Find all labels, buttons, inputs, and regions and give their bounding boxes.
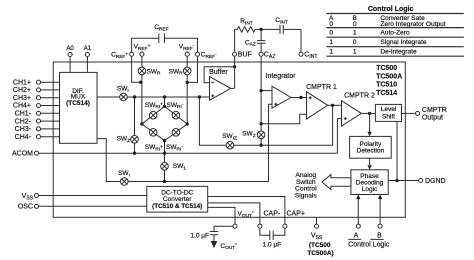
svg-text:SW1: SW1 xyxy=(173,163,186,171)
svg-text:Detection: Detection xyxy=(357,148,385,155)
svg-text:TC510: TC510 xyxy=(376,82,397,89)
svg-text:A1: A1 xyxy=(84,46,92,52)
svg-text:CH4-: CH4- xyxy=(15,134,32,141)
svg-text:A0: A0 xyxy=(66,46,74,52)
svg-text:Auto-Zero: Auto-Zero xyxy=(380,29,410,36)
svg-text:B: B xyxy=(377,233,382,240)
svg-text:TC514: TC514 xyxy=(376,90,397,97)
svg-text:(TC500: (TC500 xyxy=(309,242,331,249)
svg-text:SWZ: SWZ xyxy=(117,136,130,144)
svg-text:CREF: CREF xyxy=(154,24,168,32)
svg-text:0: 0 xyxy=(353,21,357,28)
svg-text:Control Logic: Control Logic xyxy=(368,6,414,13)
svg-text:CH1-: CH1- xyxy=(15,111,32,118)
svg-text:0: 0 xyxy=(353,39,357,46)
svg-text:Buffer: Buffer xyxy=(209,69,228,76)
svg-text:SWI: SWI xyxy=(118,170,130,178)
svg-text:SWRI+: SWRI+ xyxy=(145,144,163,152)
svg-text:1: 1 xyxy=(329,48,333,55)
svg-text:VSS: VSS xyxy=(311,233,323,241)
svg-text:VREF+: VREF+ xyxy=(134,44,151,52)
svg-text:RINT: RINT xyxy=(240,18,253,26)
svg-text:CAZ: CAZ xyxy=(245,39,256,47)
svg-text:Control Logic: Control Logic xyxy=(348,241,390,248)
svg-text:BUF: BUF xyxy=(238,52,252,59)
svg-text:1: 1 xyxy=(329,39,333,46)
svg-text:A: A xyxy=(354,233,359,240)
svg-text:CMPTR 1: CMPTR 1 xyxy=(306,84,337,91)
svg-text:CH2-: CH2- xyxy=(15,118,32,125)
svg-text:CAZ: CAZ xyxy=(264,52,275,60)
svg-text:CH3-: CH3- xyxy=(15,126,32,133)
svg-text:CMPTR 2: CMPTR 2 xyxy=(344,92,375,99)
svg-text:0: 0 xyxy=(329,21,333,28)
svg-text:VSS: VSS xyxy=(22,193,34,201)
svg-text:1.0 µF: 1.0 µF xyxy=(190,233,209,240)
svg-text:0: 0 xyxy=(329,29,333,36)
svg-text:(TC510 & TC514): (TC510 & TC514) xyxy=(152,203,202,210)
svg-text:Output: Output xyxy=(422,115,443,122)
svg-text:TC500A): TC500A) xyxy=(307,250,333,257)
svg-text:Signal Integrate: Signal Integrate xyxy=(380,39,427,46)
svg-text:CH3+: CH3+ xyxy=(13,95,31,102)
svg-text:CINT: CINT xyxy=(275,17,288,25)
svg-text:CH2+: CH2+ xyxy=(13,87,31,94)
svg-text:De-integrate: De-integrate xyxy=(380,48,417,55)
svg-text:Converter: Converter xyxy=(163,196,192,203)
svg-text:CREF-: CREF- xyxy=(201,52,217,60)
svg-text:Shift: Shift xyxy=(382,113,395,120)
svg-text:DGND: DGND xyxy=(425,178,446,185)
svg-text:CH4+: CH4+ xyxy=(13,103,31,110)
svg-text:1: 1 xyxy=(353,48,357,55)
svg-text:TC500A: TC500A xyxy=(376,73,402,80)
svg-text:1: 1 xyxy=(353,29,357,36)
svg-text:CAP-: CAP- xyxy=(264,211,281,218)
svg-text:Signals: Signals xyxy=(295,192,318,199)
svg-text:VREF-: VREF- xyxy=(179,44,195,52)
svg-text:SWZ: SWZ xyxy=(242,131,255,139)
svg-text:CREF+: CREF+ xyxy=(111,52,128,60)
svg-text:(TC514): (TC514) xyxy=(66,100,90,107)
svg-text:Logic: Logic xyxy=(362,186,378,193)
svg-text:CINT: CINT xyxy=(304,52,317,60)
svg-text:ACOM: ACOM xyxy=(12,151,33,158)
svg-text:OSC: OSC xyxy=(18,204,33,211)
svg-text:Integrator: Integrator xyxy=(266,73,297,80)
svg-text:CAP+: CAP+ xyxy=(287,211,305,218)
svg-text:SWR: SWR xyxy=(147,68,161,76)
svg-text:SWR: SWR xyxy=(169,68,183,76)
svg-text:SWRI-: SWRI- xyxy=(166,144,183,152)
svg-text:Zero Integrator Output: Zero Integrator Output xyxy=(380,21,445,28)
svg-text:CH1+: CH1+ xyxy=(13,79,31,86)
svg-text:TC500: TC500 xyxy=(376,65,397,72)
svg-text:SWIZ: SWIZ xyxy=(222,133,237,141)
svg-text:CMPTR: CMPTR xyxy=(422,107,447,114)
svg-text:COUT": COUT" xyxy=(220,243,237,252)
svg-text:SWI: SWI xyxy=(117,86,129,94)
svg-text:1.0 µF: 1.0 µF xyxy=(263,242,282,249)
svg-text:Level: Level xyxy=(381,106,397,113)
svg-text:SWRI-: SWRI- xyxy=(167,102,184,110)
